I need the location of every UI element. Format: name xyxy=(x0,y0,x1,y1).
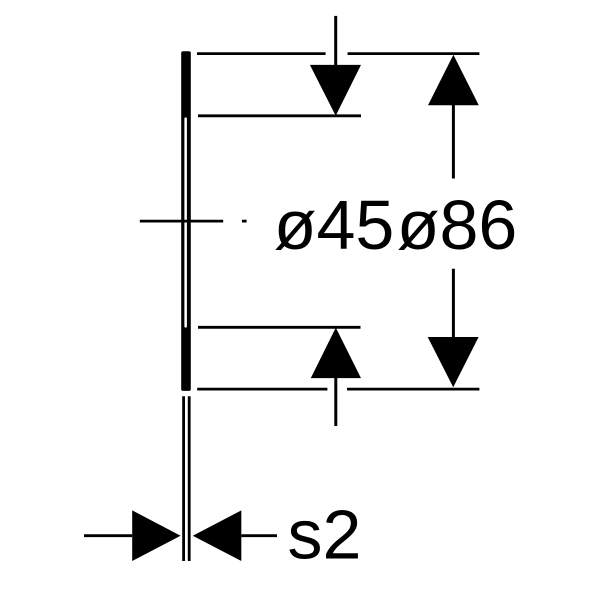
s2 dimension line left xyxy=(84,534,132,537)
svg-text:s2: s2 xyxy=(288,496,362,574)
gasket inner bore slit xyxy=(184,117,187,327)
extension line bottom (d86), right part xyxy=(347,388,479,391)
d45 bottom arrow pointing up xyxy=(311,328,361,379)
d86 dimension line lower segment xyxy=(452,269,455,337)
d45 dimension tail below bottom arrow xyxy=(334,378,337,426)
d45 dimension tail above top arrow xyxy=(334,16,337,66)
d86 dimension line upper segment xyxy=(452,105,455,179)
centerline axis long segment xyxy=(140,220,223,223)
s2 dimension line right xyxy=(241,534,277,537)
extension line lower (d45) xyxy=(198,326,361,329)
s2 arrow pointing right xyxy=(132,510,180,561)
extension line top (d86), left part xyxy=(197,52,326,55)
centerline axis short dash xyxy=(242,220,247,223)
pipe wall left line below gasket xyxy=(182,396,185,561)
extension line top (d86), right part xyxy=(348,52,480,55)
svg-text:ø45: ø45 xyxy=(274,186,395,264)
s2 arrow pointing left xyxy=(193,510,242,561)
d45 top arrow pointing down xyxy=(310,65,361,116)
d86 bottom arrow pointing down xyxy=(428,337,479,387)
extension line bottom (d86), left part xyxy=(197,388,327,391)
pipe wall right line below gasket xyxy=(188,396,191,561)
svg-text:ø86: ø86 xyxy=(397,186,518,264)
extension line upper (d45) xyxy=(198,114,361,117)
d86 top arrow pointing up xyxy=(428,55,479,105)
gasket body (section side view) xyxy=(181,51,191,391)
